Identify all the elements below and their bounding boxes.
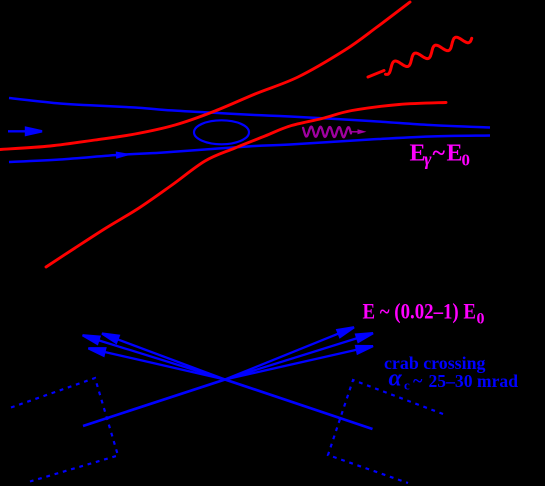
disrupted beam fan right 3: [225, 346, 373, 380]
label alpha_c ~ 25-30 mrad: [389, 366, 519, 393]
disrupted beam fan left 2: [102, 334, 225, 380]
svg-text:~: ~: [433, 140, 446, 166]
svg-text:α: α: [389, 366, 403, 392]
left quadrupole dashed box: [11, 378, 118, 482]
svg-text:E ~ (0.02–1) E: E ~ (0.02–1) E: [363, 299, 477, 324]
svg-text:~: ~: [413, 370, 423, 390]
label E ~ (0.02-1) E0: [363, 299, 485, 328]
disrupted beam fan right 1: [225, 327, 354, 379]
laser beam lower curve: [46, 103, 446, 268]
label E_gamma ~ E0: [410, 140, 471, 169]
disrupted beam fan left 3: [88, 348, 225, 379]
incoming beam from lower left: [83, 380, 225, 427]
disrupted beam fan left 1: [83, 335, 225, 379]
electron beam top line: [9, 98, 490, 128]
svg-text:γ: γ: [424, 149, 432, 169]
laser beam upper curve: [0, 2, 410, 150]
scattered photon wavy red: [368, 71, 384, 78]
svg-text:c: c: [404, 377, 410, 392]
arrow on bottom electron line: [116, 152, 132, 159]
electron beam bottom line: [9, 136, 490, 163]
disrupted beam fan right 2: [225, 333, 373, 379]
outgoing beam to lower right: [225, 380, 373, 430]
high energy photon wavy purple: [303, 127, 351, 138]
electron direction arrow left: [8, 128, 42, 135]
svg-text:25–30 mrad: 25–30 mrad: [429, 371, 519, 391]
svg-text:0: 0: [462, 151, 471, 170]
svg-text:E: E: [447, 140, 463, 166]
svg-text:0: 0: [477, 311, 485, 328]
conversion region ellipse: [194, 120, 249, 144]
right quadrupole dashed box: [328, 380, 443, 483]
